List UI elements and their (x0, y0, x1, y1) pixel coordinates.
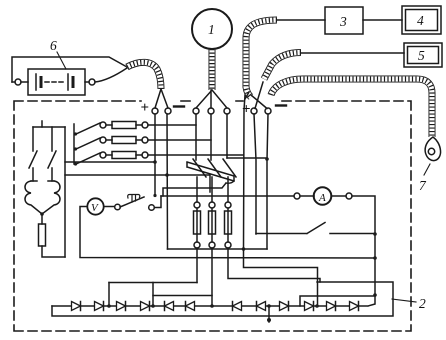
junction dot bus (242, 247, 246, 251)
wire row3 (106, 154, 112, 156)
fuse 2 body (209, 211, 216, 234)
terminal row2 right (142, 137, 148, 143)
wire ammeter right to column (352, 196, 375, 295)
resistor row3 (112, 152, 136, 159)
wire resistor down and right (42, 246, 65, 257)
blade pole3 (223, 159, 236, 177)
fuse 2 wire through (211, 208, 213, 242)
terminal row3 left (100, 152, 106, 158)
junction dot (165, 173, 169, 177)
battery terminal right (89, 79, 95, 85)
ammeter left terminal (294, 193, 300, 199)
terminal - (left pair) (165, 108, 171, 114)
wire V right (104, 206, 114, 208)
wire cable C to box 3 (277, 19, 325, 21)
diode D3 (117, 302, 126, 311)
junction dot diode line (107, 304, 111, 308)
diode D10 (305, 302, 314, 311)
ammeter right terminal (346, 193, 352, 199)
voltmeter V (87, 198, 103, 214)
wire battery left stub (12, 81, 28, 83)
cable E to test lamp 7 (thick insulated cable) (271, 79, 432, 137)
switch contact circle 2 (149, 205, 155, 211)
wire fuse2 down (211, 248, 213, 306)
wire middle terminal drops (196, 114, 227, 160)
switch blade V (120, 197, 144, 207)
terminal middle 1 (193, 108, 199, 114)
diode block 2 outline (52, 282, 393, 316)
leader line label 7 (424, 164, 430, 175)
switch blade a (29, 151, 37, 168)
wire row3 right (136, 154, 142, 156)
terminal + (left pair) (152, 108, 158, 114)
diode D9 (280, 302, 289, 311)
wire row1 (106, 124, 112, 126)
svg-text:1: 1 (208, 22, 215, 37)
terminal - (right pair) (265, 108, 271, 114)
test lamp 7 body (425, 137, 440, 161)
svg-text:3: 3 (339, 14, 347, 29)
junction dot (373, 293, 377, 297)
junction dot discharger output (40, 212, 44, 216)
wire fuse3 down right to diode box top (228, 248, 320, 282)
battery cell plates (36, 74, 68, 90)
wire fuse1 down (196, 248, 198, 283)
junction dot diode line (267, 304, 271, 308)
arc discharger body left side (25, 181, 42, 214)
resistor R (vertical) (39, 224, 46, 246)
terminal middle 2 (208, 108, 214, 114)
fuse 2 bottom terminal (209, 242, 215, 248)
wire x109 drop (108, 283, 110, 307)
wire bus y281 (109, 282, 197, 284)
wire x256 + drop to ammeter switch (254, 114, 256, 234)
terminal row1 left (100, 122, 106, 128)
wire to box 5 (300, 52, 404, 54)
wire V left down to bus (80, 207, 375, 259)
arc discharger top closures (31, 180, 54, 182)
wire y295 link (153, 295, 212, 297)
svg-text:+: + (141, 100, 150, 116)
ammeter A (314, 187, 332, 205)
wire row1 output (148, 124, 196, 126)
wire discharger to resistor (41, 214, 43, 224)
wire V switch output (155, 196, 162, 208)
wire poles lower (197, 177, 228, 202)
terminal row3 right (142, 152, 148, 158)
terminal row2 left (100, 137, 106, 143)
fuse 1 top terminal (194, 202, 200, 208)
wire row1 right (136, 124, 142, 126)
blade pole2 (208, 159, 221, 177)
svg-text:2: 2 (419, 296, 426, 311)
diode D6 (reversed) (186, 302, 195, 311)
wire box 3 to box 4 (363, 19, 402, 21)
wire U bus y249 (168, 248, 268, 250)
center tap stub (268, 306, 270, 322)
wire vertical x65 (64, 127, 66, 257)
diode D4 (141, 302, 150, 311)
wire pole b lower (51, 168, 53, 181)
terminal middle 3 (224, 108, 230, 114)
diode bus line (52, 296, 375, 306)
fuse 2 top terminal (209, 202, 215, 208)
terminal + (right pair) (251, 108, 257, 114)
fuse 1 body (194, 211, 201, 234)
fuse 1 bottom terminal (194, 242, 200, 248)
wire cable B fan to terminals (155, 89, 168, 108)
blade pole1 (193, 159, 206, 177)
wire vertical pole a (32, 127, 34, 151)
junction dot (373, 256, 377, 260)
wire crossover cables to right terminals (245, 82, 267, 109)
junction dot (153, 194, 156, 197)
switch handle hook (226, 181, 234, 183)
cable B battery to +- terminals (thick insulated cable) (127, 62, 161, 89)
wire x267 - drop (267, 114, 268, 249)
switch actuator link wire (163, 183, 226, 196)
wire x243 drop from cable area (244, 95, 246, 249)
fuse 3 body (225, 211, 232, 234)
wire row2 output (148, 139, 211, 141)
wire bus y162 (65, 161, 155, 163)
leader line label 6 (57, 52, 66, 69)
wire bus249 drop right to diode line (244, 249, 318, 306)
wire cable A fan to middle terminals (196, 90, 227, 108)
switch contact circle (115, 204, 121, 210)
diode D7 (reversed) (233, 302, 242, 311)
switch blade b (48, 151, 56, 168)
fuse 1 wire through (196, 208, 198, 242)
fuse 3 wire through (227, 208, 229, 242)
cable C to control unit 3 (thick insulated cable) (246, 20, 277, 97)
junction dot diode line (210, 304, 214, 308)
junction tick (41, 121, 43, 127)
junction dot (373, 232, 377, 236)
svg-text:V: V (91, 202, 99, 214)
switch blade row1 (76, 123, 100, 134)
wire vertical pole b (51, 127, 53, 151)
diode D12 (350, 302, 359, 311)
box 4 (double border) (402, 6, 441, 34)
wire ammeter bypass switch (256, 223, 375, 234)
box 3 (325, 7, 363, 34)
diode D11 (327, 302, 336, 311)
junction dot stub (267, 318, 271, 322)
wire row3 output (148, 154, 227, 156)
wire pivots bus of resistor switch bank (73, 124, 75, 164)
wire ammeter stubs (300, 195, 346, 197)
junction dot diode line (315, 304, 319, 308)
switch blade row2 (76, 138, 100, 149)
dashed border of test bench panel (14, 101, 411, 331)
wire - terminal drop (166, 114, 169, 249)
fuse 3 bottom terminal (225, 242, 231, 248)
junction dot (153, 160, 157, 164)
wire y296 right link (300, 296, 375, 306)
diode D1 (72, 302, 81, 311)
svg-text:7: 7 (419, 178, 427, 193)
battery terminal left (15, 79, 21, 85)
wire V to A link (161, 195, 294, 197)
terminal row1 right (142, 122, 148, 128)
label 2 leader (392, 299, 416, 302)
wire row3 extension to x243 (227, 154, 243, 156)
wire bus y175 (65, 175, 210, 192)
battery internal dashed link (45, 81, 64, 83)
wire + terminal drop (154, 114, 156, 196)
svg-text:6: 6 (50, 38, 57, 53)
wire x153 riser (152, 283, 154, 307)
svg-text:5: 5 (418, 48, 425, 63)
wire row2 right (136, 139, 142, 141)
box 5 (double border) (404, 43, 442, 67)
wire pole a lower (32, 168, 34, 181)
svg-text:A: A (318, 192, 326, 204)
label - (174, 105, 184, 107)
junction dot diode line (151, 304, 155, 308)
resistor row1 (112, 122, 136, 129)
wire row2 (106, 139, 112, 141)
test lamp 7 bulb (428, 148, 434, 154)
wire battery right to cable (85, 68, 127, 82)
battery GB (6) box (28, 69, 85, 95)
wire left pair top bus (33, 126, 65, 128)
switch blade row3 (76, 153, 100, 164)
three pole switch blades link bar (187, 162, 234, 181)
diode D2 (95, 302, 104, 311)
svg-text:4: 4 (417, 13, 424, 28)
fuse 3 top terminal (225, 202, 231, 208)
resistor row2 (112, 137, 136, 144)
wire row3 extension to x267 (227, 157, 267, 159)
high-voltage coil output 1 (circle) (192, 9, 232, 49)
label - right (276, 104, 286, 106)
junction dot (265, 157, 269, 161)
cable D from box5 wire down-left (thick insulated cable) (264, 53, 301, 80)
pushbutton mark P (128, 195, 140, 203)
arc discharger body right side (42, 181, 60, 214)
wire battery loop (12, 57, 127, 82)
diode D5 (reversed) (165, 302, 174, 311)
cable A from 1 down (thick insulated cable) (209, 49, 216, 90)
diode D8 (reversed) (257, 302, 266, 311)
